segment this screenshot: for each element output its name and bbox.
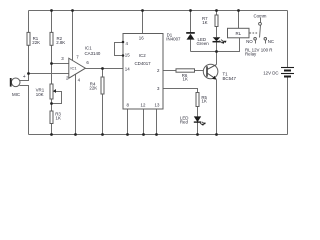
svg-text:NC: NC bbox=[268, 39, 274, 44]
node pin15 jumper bbox=[122, 54, 125, 57]
svg-text:14: 14 bbox=[125, 67, 130, 72]
svg-text:Relay: Relay bbox=[245, 52, 257, 57]
node pin7 top bbox=[71, 9, 74, 12]
wire IC2 pin8 ground bbox=[127, 110, 129, 135]
wire emitter vertical bbox=[216, 80, 218, 135]
wire pin2 to R6 to base bbox=[164, 70, 208, 72]
svg-text:10K: 10K bbox=[36, 92, 44, 97]
svg-text:3: 3 bbox=[61, 56, 64, 61]
node pin4 jumper bbox=[122, 41, 125, 44]
wire pin4-pin15 jumper bbox=[115, 43, 124, 56]
svg-text:1K: 1K bbox=[183, 77, 188, 82]
relay NO terminal bbox=[246, 38, 256, 45]
resistor R2 bbox=[50, 32, 65, 45]
svg-text:MIC: MIC bbox=[12, 92, 20, 97]
svg-text:RL: RL bbox=[236, 31, 242, 36]
wire bottom rail bbox=[29, 134, 288, 136]
svg-text:CA3140: CA3140 bbox=[85, 51, 101, 56]
wire op-amp pin4 ground bbox=[75, 75, 77, 135]
potentiometer VR1 bbox=[36, 84, 56, 99]
resistor R3 bbox=[50, 111, 61, 124]
relay rating label bbox=[245, 48, 272, 57]
microphone MIC bbox=[10, 74, 26, 97]
wire op-amp pin7 supply bbox=[72, 11, 74, 61]
node mic plus bbox=[27, 72, 30, 75]
wire mic bottom lead bbox=[20, 86, 29, 135]
svg-text:NO: NO bbox=[246, 39, 253, 44]
svg-text:CD4017: CD4017 bbox=[135, 61, 152, 66]
node R4 top bbox=[101, 67, 104, 70]
relay coil RL bbox=[228, 28, 250, 38]
svg-text:16: 16 bbox=[139, 36, 144, 41]
wire right rail upper bbox=[287, 11, 289, 68]
wire right rail lower bbox=[287, 77, 289, 135]
svg-text:Comm: Comm bbox=[254, 13, 267, 18]
wire op-amp output to pin14 bbox=[86, 68, 124, 70]
diode D1 IN4007 bbox=[166, 32, 195, 41]
wire pin3 input bbox=[52, 63, 69, 65]
wire IC2 pin12 ground bbox=[143, 110, 145, 135]
IC U2 CD4017 box bbox=[123, 34, 163, 110]
wire VR1 to R3 bbox=[51, 100, 53, 112]
relay NC terminal bbox=[264, 38, 274, 45]
svg-text:7: 7 bbox=[76, 54, 79, 59]
node relay top bbox=[237, 9, 240, 12]
node pin13 ground bbox=[155, 133, 158, 136]
svg-text:22K: 22K bbox=[32, 40, 40, 45]
relay comm terminal bbox=[254, 13, 267, 25]
wire mic top lead bbox=[20, 74, 29, 81]
wire pin16 supply bbox=[142, 11, 144, 34]
svg-text:1K: 1K bbox=[56, 115, 61, 120]
svg-text:BC547: BC547 bbox=[223, 76, 237, 81]
node collector bbox=[215, 50, 218, 53]
wire R4 branch bbox=[102, 69, 104, 135]
svg-text:Red: Red bbox=[180, 119, 189, 124]
resistor R4 bbox=[89, 77, 104, 94]
op-amp U1 IC1 CA3140 bbox=[61, 45, 101, 82]
svg-text:22K: 22K bbox=[89, 85, 97, 90]
wire R3 to ground bbox=[51, 124, 53, 135]
svg-text:1K: 1K bbox=[202, 20, 207, 25]
node pin4 ground bbox=[74, 133, 77, 136]
LED red bbox=[180, 115, 206, 126]
LED green bbox=[197, 37, 227, 46]
wire VR1 wiper loop bbox=[52, 92, 62, 104]
wire pin2 input bbox=[29, 73, 69, 75]
svg-text:12: 12 bbox=[141, 102, 146, 107]
node R4 ground bbox=[101, 133, 104, 136]
svg-text:6: 6 bbox=[86, 60, 89, 65]
wire comm stub bbox=[260, 18, 262, 23]
wire NC stub bbox=[265, 41, 267, 44]
wire R7 branch bbox=[216, 11, 218, 16]
node pin8 ground bbox=[126, 133, 129, 136]
battery B1 12V DC bbox=[263, 68, 294, 77]
transistor Q1 T1 BC547 bbox=[203, 64, 236, 81]
wire IC2 pin13 ground bbox=[156, 110, 158, 135]
wire collector node bbox=[191, 38, 240, 52]
node pin16 top bbox=[141, 9, 144, 12]
svg-text:Green: Green bbox=[197, 41, 210, 46]
wire relay coil top bbox=[238, 11, 240, 29]
relay contact dashed link bbox=[250, 32, 258, 34]
svg-text:15: 15 bbox=[125, 53, 130, 58]
svg-text:1K: 1K bbox=[202, 98, 207, 103]
node D1 top bbox=[189, 9, 192, 12]
svg-text:4: 4 bbox=[78, 77, 81, 82]
node pin3 input bbox=[50, 62, 53, 65]
resistor R5 bbox=[196, 93, 208, 107]
node pin12 ground bbox=[142, 133, 145, 136]
resistor R7 bbox=[202, 15, 218, 27]
wire pin3 to R5 bbox=[164, 89, 198, 93]
wire D1 to node bbox=[190, 40, 192, 52]
svg-text:2.8K: 2.8K bbox=[56, 40, 65, 45]
wire R7 to LED green bbox=[216, 27, 218, 38]
wire D1 branch bbox=[190, 11, 192, 34]
resistor R6 bbox=[176, 69, 195, 82]
wire NO stub bbox=[255, 41, 257, 44]
node R2 top bbox=[50, 9, 53, 12]
svg-text:12V DC: 12V DC bbox=[263, 71, 278, 76]
wire LED red to ground bbox=[197, 122, 199, 135]
svg-text:13: 13 bbox=[155, 102, 160, 107]
wire R1 branch bbox=[28, 11, 30, 74]
svg-text:IN4007: IN4007 bbox=[166, 37, 181, 42]
svg-text:IC1: IC1 bbox=[85, 45, 92, 50]
wire LED green to node bbox=[216, 42, 218, 52]
resistor R1 bbox=[27, 32, 40, 45]
node LED red ground bbox=[196, 133, 199, 136]
wire R2 branch bbox=[51, 11, 53, 85]
wire R5 to LED red bbox=[197, 107, 199, 117]
svg-text:IC2: IC2 bbox=[139, 53, 146, 58]
wire relay pole bbox=[260, 26, 261, 38]
wire top rail bbox=[29, 10, 288, 12]
node R3 ground bbox=[50, 133, 53, 136]
node R7 top bbox=[215, 9, 218, 12]
svg-text:IC1: IC1 bbox=[70, 66, 77, 71]
svg-text:+: + bbox=[23, 74, 26, 80]
wire collector vertical bbox=[216, 52, 218, 65]
node VR1 wiper bottom bbox=[50, 102, 53, 105]
node emitter ground bbox=[215, 133, 218, 136]
